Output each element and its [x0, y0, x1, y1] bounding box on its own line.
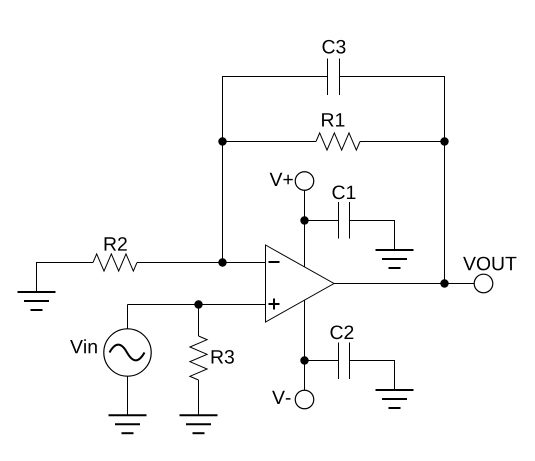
node inverting input	[218, 258, 226, 266]
terminal V-	[295, 300, 314, 409]
ground C2	[376, 390, 414, 408]
ground C1	[376, 250, 414, 268]
node output	[440, 279, 448, 287]
label R1	[322, 113, 344, 126]
label R3	[212, 350, 234, 364]
node left of R1	[218, 137, 226, 145]
label C2	[331, 326, 354, 340]
label VOUT	[463, 257, 516, 271]
node V- rail	[300, 356, 308, 364]
capacitor C2	[305, 343, 395, 391]
node V+ rail	[300, 216, 308, 224]
capacitor C1	[305, 202, 395, 250]
label V-	[272, 391, 290, 404]
label V+	[270, 173, 293, 186]
wire top C3 branch right	[340, 77, 445, 284]
wire non-inverting branch	[128, 304, 266, 306]
label Vin	[70, 339, 97, 353]
resistor R2	[93, 254, 266, 271]
source Vin	[104, 305, 151, 416]
terminal VOUT	[474, 274, 493, 293]
node non-inverting input	[194, 300, 202, 308]
label R2	[105, 237, 127, 251]
node right of R1	[440, 137, 448, 145]
resistor R3	[190, 305, 207, 416]
capacitor C3	[328, 59, 340, 96]
ground under R3	[180, 415, 218, 433]
wire output branch	[334, 283, 474, 285]
label C3	[323, 40, 346, 54]
terminal V+	[295, 172, 314, 267]
ground left	[18, 263, 94, 311]
wire top C3 branch left	[223, 77, 328, 263]
op-amp U1	[266, 245, 335, 322]
label C1	[333, 186, 356, 200]
resistor R1	[223, 133, 445, 150]
ground under Vin	[109, 415, 147, 433]
